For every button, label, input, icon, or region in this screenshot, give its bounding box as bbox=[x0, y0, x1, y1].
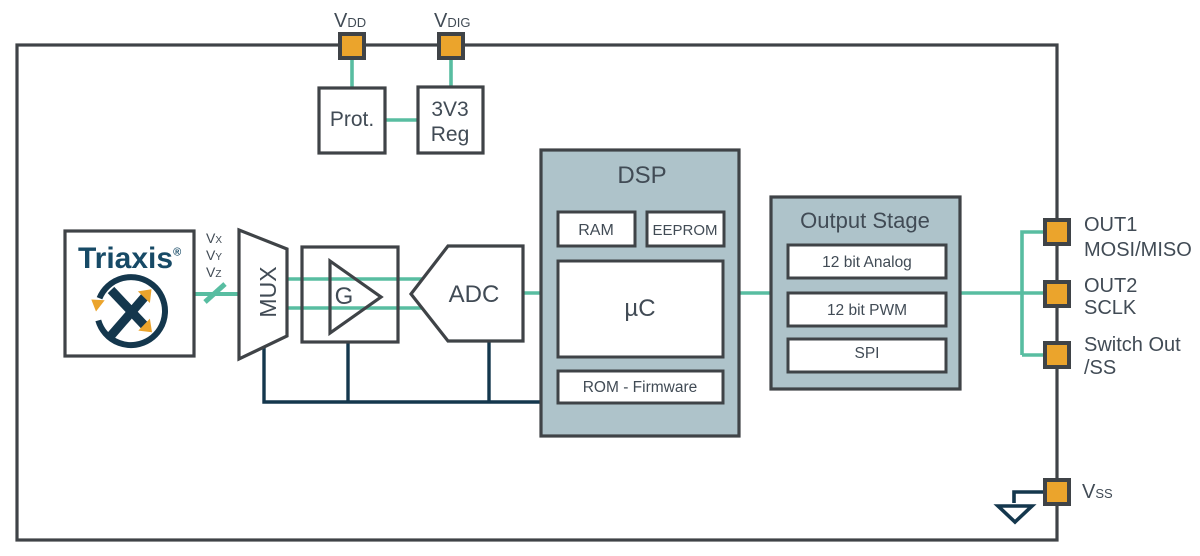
svg-text:OUT2: OUT2 bbox=[1084, 275, 1137, 297]
Triaxis logo icon bbox=[91, 277, 165, 345]
wire Prot to 3V3 Reg bbox=[384, 118, 419, 122]
wire MUX to ADC channel 2 bbox=[287, 306, 430, 310]
wire Triaxis to MUX with bus slash bbox=[194, 292, 240, 296]
svg-text:VZ: VZ bbox=[206, 264, 221, 280]
block Prot. bbox=[319, 88, 385, 153]
wire to Switch Out pad bbox=[1022, 353, 1043, 357]
bus MUX/G/ADC to DSP (navy) bbox=[264, 347, 541, 402]
block EEPROM bbox=[647, 212, 724, 246]
block Output Stage bbox=[771, 197, 960, 389]
pad Switch Out bbox=[1045, 343, 1069, 367]
svg-text:OUT1: OUT1 bbox=[1084, 214, 1137, 236]
wire MUX to ADC channel 1 bbox=[287, 277, 430, 281]
block DSP bbox=[541, 150, 739, 436]
svg-text:SCLK: SCLK bbox=[1084, 297, 1137, 319]
block 12 bit PWM bbox=[788, 293, 946, 326]
pad VSS bbox=[1045, 480, 1069, 504]
pad VDD bbox=[340, 34, 364, 58]
pad OUT1 bbox=[1045, 220, 1069, 244]
svg-text:VX: VX bbox=[206, 230, 222, 246]
svg-text:VY: VY bbox=[206, 247, 222, 263]
svg-text:G: G bbox=[335, 283, 354, 310]
pad OUT2 bbox=[1045, 282, 1069, 306]
svg-text:SPI: SPI bbox=[855, 345, 880, 362]
wire to OUT1 pad bbox=[1022, 232, 1043, 355]
bus drop from G bbox=[346, 342, 349, 402]
svg-text:Output Stage: Output Stage bbox=[800, 208, 930, 233]
wire ADC to DSP to Output Stage to OUT2 pad bbox=[523, 291, 1043, 295]
svg-text:Switch Out: Switch Out bbox=[1084, 334, 1181, 356]
wire VDIG pad to 3V3 Reg bbox=[449, 58, 453, 89]
amplifier block G bbox=[302, 247, 398, 342]
svg-text:EEPROM: EEPROM bbox=[652, 222, 717, 239]
svg-text:ROM - Firmware: ROM - Firmware bbox=[583, 379, 698, 396]
block SPI bbox=[788, 339, 946, 372]
bus drop from ADC bbox=[487, 341, 490, 402]
svg-text:VSS: VSS bbox=[1082, 481, 1113, 503]
svg-text:MOSI/MISO: MOSI/MISO bbox=[1084, 239, 1192, 261]
svg-text:Prot.: Prot. bbox=[330, 108, 374, 131]
svg-text:VDIG: VDIG bbox=[434, 10, 470, 32]
svg-text:Triaxis®: Triaxis® bbox=[78, 242, 181, 275]
block ADC bbox=[411, 246, 523, 341]
svg-text:DSP: DSP bbox=[617, 162, 666, 189]
svg-text:Reg: Reg bbox=[431, 123, 470, 146]
block 3V3 Reg bbox=[418, 87, 483, 153]
svg-text:12 bit PWM: 12 bit PWM bbox=[827, 302, 907, 319]
wire VDD pad to Prot bbox=[350, 58, 354, 90]
chip outline U1 bbox=[17, 45, 1057, 540]
svg-text:VDD: VDD bbox=[334, 10, 366, 32]
pad VDIG bbox=[439, 34, 463, 58]
block RAM bbox=[558, 212, 635, 246]
block uC bbox=[558, 261, 723, 357]
block 12 bit Analog bbox=[788, 245, 946, 278]
svg-text:/SS: /SS bbox=[1084, 357, 1116, 379]
block ROM Firmware bbox=[558, 371, 723, 403]
svg-text:ADC: ADC bbox=[449, 281, 500, 308]
sensor block Triaxis bbox=[65, 231, 194, 356]
svg-text:µC: µC bbox=[624, 295, 655, 322]
svg-text:12 bit Analog: 12 bit Analog bbox=[822, 254, 912, 271]
wire VSS pad to ground bbox=[1014, 492, 1043, 503]
block MUX bbox=[239, 230, 287, 359]
ground symbol bbox=[998, 506, 1032, 522]
svg-text:MUX: MUX bbox=[255, 266, 281, 317]
svg-text:3V3: 3V3 bbox=[431, 98, 468, 121]
svg-text:RAM: RAM bbox=[578, 222, 614, 239]
